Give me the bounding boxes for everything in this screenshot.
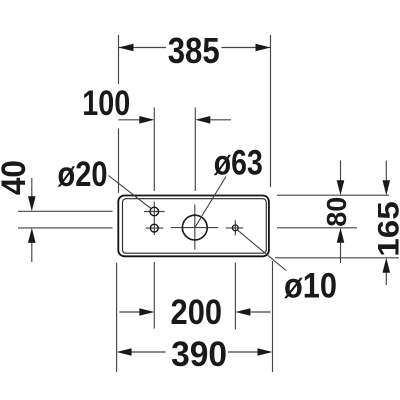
- leader ø10: [238, 230, 287, 270]
- tank outer outline: [118, 196, 269, 257]
- dim 200 left stem: [119, 311, 140, 313]
- hole ø20 top circle: [150, 207, 159, 216]
- leader ø63: [195, 177, 226, 228]
- dim 40 upper extension line: [18, 210, 113, 212]
- dim 385 arrowhead left: [119, 44, 134, 52]
- dim 165 arrowhead down: [383, 180, 391, 195]
- svg-text:200: 200: [171, 293, 223, 332]
- svg-text:165: 165: [373, 201, 400, 257]
- svg-text:390: 390: [171, 335, 227, 374]
- dim 165 arrowhead up: [383, 258, 391, 273]
- dim 100 extension at center column: [194, 108, 196, 192]
- dim 385 extension left: [118, 35, 120, 193]
- dim 385 arrowhead right: [256, 44, 271, 52]
- dim 390 left segment: [131, 351, 166, 353]
- bottom extension x235.4: [234, 263, 236, 330]
- dim 100 arrowhead left-pointing: [195, 116, 210, 124]
- ø63 crosshair horizontal: [171, 227, 218, 229]
- svg-text:80: 80: [321, 197, 352, 227]
- dim 80 bottom arrow stem: [340, 243, 342, 264]
- hole ø20 bottom circle: [150, 224, 158, 232]
- dim 200 arrowhead right-pointing: [139, 308, 154, 316]
- dim 385 line right segment: [222, 47, 271, 49]
- svg-text:ø20: ø20: [58, 155, 108, 194]
- right extension line tank top: [277, 194, 389, 196]
- dim 165 top arrow stem: [385, 161, 387, 182]
- dim 390 arrowhead right-pointing: [258, 348, 273, 356]
- bottom extension x116.6: [116, 263, 118, 372]
- dim 40 arrowhead down: [28, 196, 36, 211]
- dim 165 bottom arrow stem: [385, 273, 387, 286]
- dim 80 top arrow stem: [340, 161, 342, 182]
- hole ø10 circle: [232, 225, 238, 231]
- hole crosshair vertical left column: [153, 202, 155, 236]
- right extension line tank bottom: [275, 257, 399, 259]
- svg-text:ø10: ø10: [284, 266, 337, 305]
- dim 100 line left segment: [119, 119, 142, 121]
- dim 40 lower arrow stem: [31, 243, 33, 262]
- svg-text:ø63: ø63: [214, 143, 263, 182]
- leader ø20: [109, 176, 151, 209]
- dim 385 extension right: [270, 35, 272, 187]
- svg-text:385: 385: [168, 30, 220, 71]
- tank inner lid line: [123, 199, 267, 254]
- hole crosshair horizontal top ø20: [144, 211, 165, 213]
- hole crosshair horizontal bottom ø20: [146, 227, 164, 229]
- dim 100 extension at hole column: [153, 108, 155, 192]
- bottom extension x272.5: [272, 261, 274, 372]
- dim 80 arrowhead down: [337, 180, 345, 195]
- dim 80 arrowhead up: [337, 228, 345, 243]
- ø10 crosshair vertical: [234, 220, 236, 235]
- dim 200 arrowhead left-pointing: [235, 308, 250, 316]
- hole ø63 circle: [182, 215, 207, 240]
- ø63 crosshair vertical: [194, 205, 196, 250]
- svg-text:40: 40: [0, 160, 33, 195]
- dim 40 arrowhead up: [28, 228, 36, 243]
- dim 100 line right stem: [209, 119, 231, 121]
- ø10 crosshair horizontal: [226, 227, 244, 229]
- dim 40 upper arrow stem: [31, 178, 33, 197]
- dim 100 arrowhead right-pointing: [139, 116, 154, 124]
- dim 385 line left segment: [119, 47, 167, 49]
- dim 40 lower extension line: [18, 227, 113, 229]
- svg-text:100: 100: [82, 84, 130, 123]
- dim 200 right stem: [250, 311, 271, 313]
- dim 390 right segment: [228, 351, 258, 353]
- dim 390 arrowhead left-pointing: [117, 348, 132, 356]
- right extension line hole level: [277, 227, 357, 229]
- bottom extension x154.3: [153, 262, 155, 329]
- dim 100 text white box (clips 385 left ext): [80, 84, 132, 129]
